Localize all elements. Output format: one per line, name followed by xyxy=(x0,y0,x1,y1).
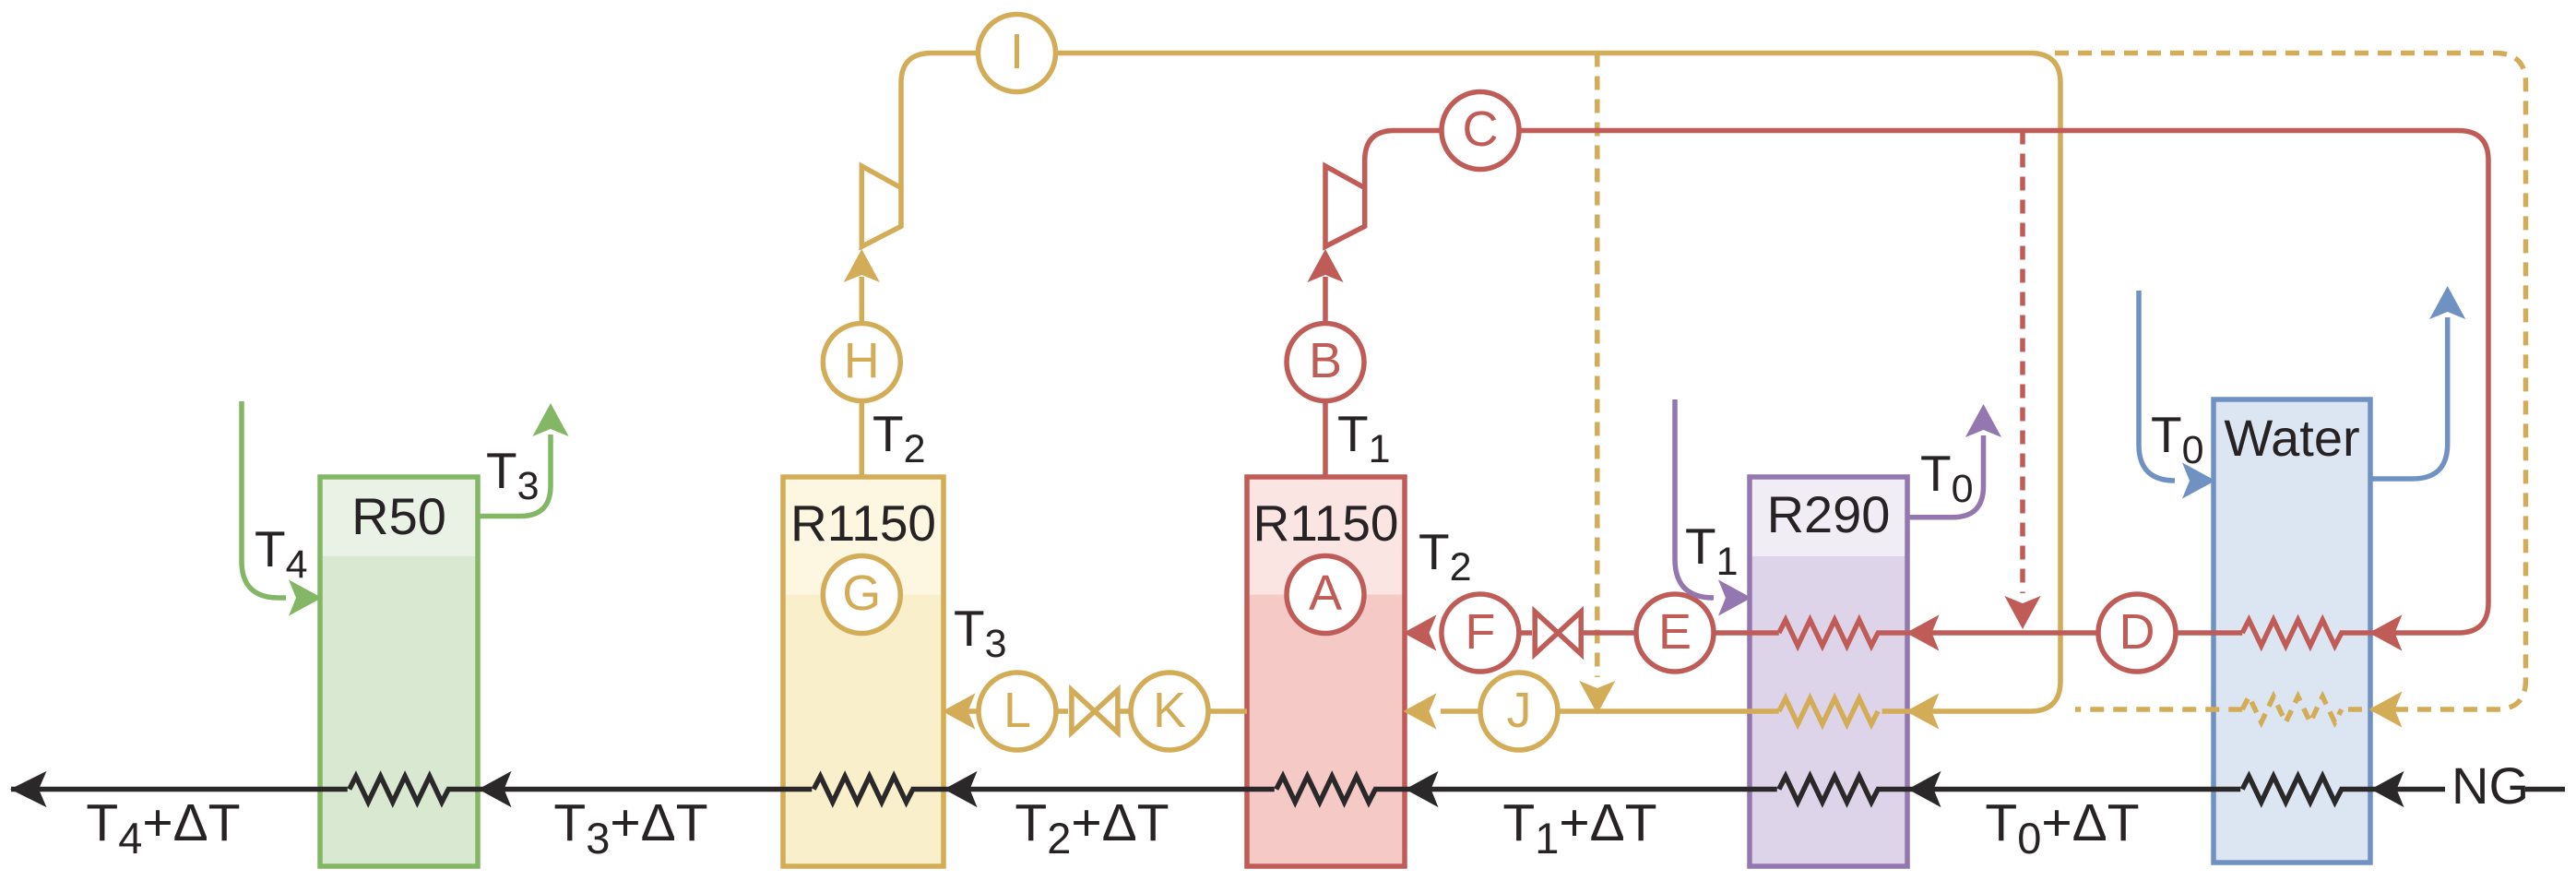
svg-text:L: L xyxy=(1003,683,1031,738)
svg-text:C: C xyxy=(1463,101,1499,157)
svg-text:T1+ΔT: T1+ΔT xyxy=(1502,793,1656,863)
svg-text:H: H xyxy=(844,333,880,388)
svg-text:A: A xyxy=(1309,566,1342,621)
svg-text:I: I xyxy=(1010,24,1024,79)
svg-text:R1150: R1150 xyxy=(1253,494,1399,552)
svg-text:F: F xyxy=(1465,604,1495,660)
svg-text:T0+ΔT: T0+ΔT xyxy=(1985,793,2139,863)
svg-text:G: G xyxy=(842,566,881,621)
svg-text:Water: Water xyxy=(2224,409,2359,467)
svg-text:R290: R290 xyxy=(1767,485,1891,543)
svg-text:R1150: R1150 xyxy=(790,494,936,552)
svg-text:T2+ΔT: T2+ΔT xyxy=(1015,793,1169,863)
svg-text:NG: NG xyxy=(2451,756,2529,815)
svg-text:K: K xyxy=(1153,683,1186,738)
svg-text:R50: R50 xyxy=(351,487,446,545)
svg-text:D: D xyxy=(2119,604,2155,660)
svg-text:E: E xyxy=(1658,604,1692,660)
svg-text:B: B xyxy=(1309,333,1342,388)
svg-text:T3+ΔT: T3+ΔT xyxy=(553,793,707,863)
svg-text:T4+ΔT: T4+ΔT xyxy=(86,793,240,863)
svg-text:J: J xyxy=(1507,683,1532,738)
